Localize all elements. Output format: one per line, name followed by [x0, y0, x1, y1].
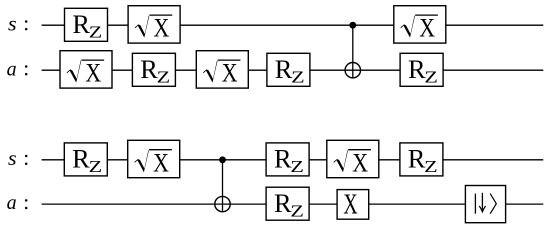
svg-text:s: s [8, 146, 17, 170]
gate SX2 (top, a wire): sqrt(X) box [60, 51, 112, 88]
svg-text:Z: Z [89, 23, 103, 42]
gate RZ1 (top, s wire): RZ box [65, 8, 108, 41]
CNOT2 (bottom): CNOT control dot [219, 156, 226, 163]
svg-text:a: a [7, 190, 17, 214]
svg-text:X: X [85, 59, 101, 88]
CNOT1 (top): target oplus [345, 62, 360, 77]
svg-text:X: X [154, 14, 170, 43]
gate RZ4 (top, a wire): RZ box [400, 53, 443, 86]
svg-text:Z: Z [424, 157, 438, 176]
gate KET1 (bottom, a wire): |&#8595;&#10217; reset box [465, 186, 505, 223]
gate SX1 (top, s wire): sqrt(X) box [128, 6, 180, 43]
gate SX5 (bottom, s wire): sqrt(X) box [128, 140, 180, 177]
CNOT2 (bottom): vertical control wire [222, 160, 224, 212]
svg-text:X: X [153, 148, 169, 177]
gate RZ2 (top, a wire): RZ box [132, 53, 175, 86]
svg-text:Z: Z [424, 68, 438, 87]
svg-text:s: s [8, 11, 17, 35]
wire s (bottom circuit) [42, 159, 544, 161]
gate RZ3 (top, a wire): RZ box [267, 53, 310, 86]
node label s (top circuit) [8, 11, 27, 35]
gate X1 (bottom, a wire): X box [337, 190, 369, 221]
svg-text:Z: Z [290, 157, 304, 176]
node label a (bottom circuit) [7, 190, 28, 214]
node label s (bottom circuit) [8, 146, 27, 170]
gate RZ8 (bottom, s wire): RZ box [400, 143, 443, 176]
gate SX4 (top, s wire): sqrt(X) box [394, 6, 446, 43]
svg-text:X: X [419, 14, 435, 43]
gate SX6 (bottom, s wire): sqrt(X) box [327, 140, 379, 177]
CNOT1 (top): vertical control wire [352, 25, 354, 78]
CNOT2 (bottom): target oplus [215, 196, 230, 211]
gate SX3 (top, a wire): sqrt(X) box [196, 51, 248, 88]
wire a (bottom circuit) [42, 203, 544, 205]
svg-text:Z: Z [89, 157, 103, 176]
svg-text:X: X [352, 148, 368, 177]
svg-text:X: X [343, 190, 357, 221]
wire a (top circuit) [42, 69, 544, 71]
wire s (top circuit) [42, 24, 544, 26]
svg-text:X: X [222, 59, 238, 88]
svg-text:Z: Z [157, 68, 171, 87]
gate RZ5 (bottom, s wire): RZ box [64, 143, 107, 176]
svg-text:a: a [7, 56, 17, 80]
node label a (top circuit) [7, 56, 28, 80]
gate RZ6 (bottom, s wire): RZ box [266, 143, 309, 176]
svg-text:Z: Z [290, 201, 304, 220]
gate RZ7 (bottom, a wire): RZ box [266, 187, 309, 220]
CNOT1 (top): CNOT control dot [349, 22, 356, 29]
svg-text:Z: Z [291, 68, 305, 87]
